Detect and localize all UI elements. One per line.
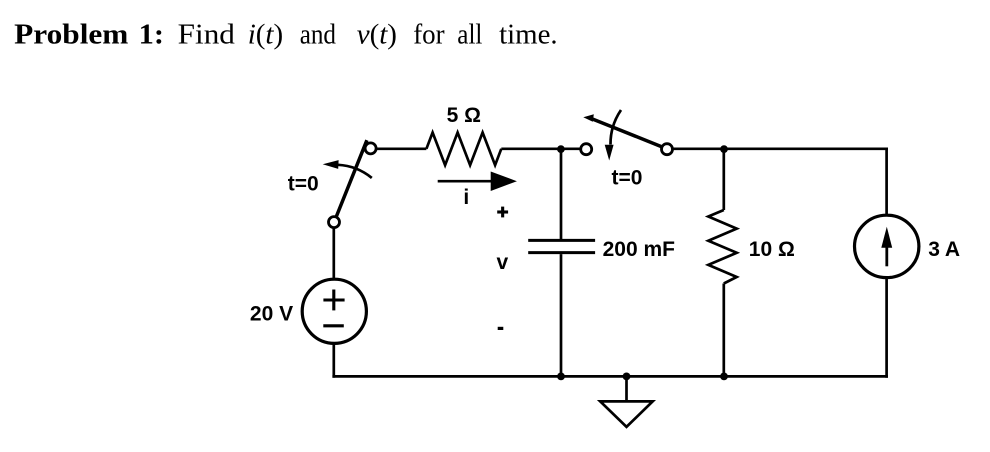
switch S2 closing motion arc arrow	[605, 110, 621, 161]
svg-text:t=0: t=0	[288, 172, 319, 195]
wire: top-right corner down to current source I1	[885, 148, 888, 216]
polarity label - (capacitor voltage)	[498, 327, 504, 330]
node D (ground node, junction dot)	[623, 373, 631, 381]
svg-text:200 mF: 200 mF	[603, 238, 676, 261]
value label 3 A	[928, 238, 960, 261]
value label 20 V	[250, 303, 293, 326]
svg-text:5 Ω: 5 Ω	[447, 104, 481, 127]
wire: node A down to capacitor C1 top plate	[560, 149, 563, 239]
wire: capacitor C1 bottom plate down to node C	[560, 254, 563, 376]
switch S1 lower terminal circle	[329, 217, 340, 228]
svg-text:v: v	[497, 251, 509, 274]
switch S2 left terminal circle	[581, 144, 592, 155]
value label 10 ohm	[749, 238, 795, 261]
node E (bottom 10-ohm node, junction dot)	[720, 373, 728, 381]
label i	[463, 186, 469, 209]
current arrow i	[438, 172, 517, 192]
voltage source V1 20 V (circle with plus minus)	[302, 279, 366, 343]
svg-text:20 V: 20 V	[250, 303, 293, 326]
switch S2 blade (open, with arrow tip)	[583, 114, 662, 147]
resistor R1 5 ohm (horizontal zigzag)	[426, 133, 501, 166]
switch S1 upper terminal circle	[365, 143, 376, 154]
current source I1 3 A (circle with up arrow)	[855, 215, 919, 277]
wire: switch S1 lower terminal down to voltage source V1	[332, 227, 335, 279]
label v (capacitor voltage)	[497, 251, 509, 274]
label t=0 for switch S1	[288, 172, 319, 195]
node C (bottom capacitor node, junction dot)	[557, 373, 565, 381]
ground symbol	[600, 376, 653, 427]
capacitor C1 200 mF (two plates)	[528, 240, 595, 252]
svg-text:t=0: t=0	[612, 167, 643, 190]
wire: resistor R1 to node A and switch S2 left terminal	[501, 147, 581, 150]
title: Problem 1: Find i(t) and v(t) for all time.	[14, 19, 557, 51]
svg-text:10 Ω: 10 Ω	[749, 238, 795, 261]
wire: resistor R2 down to node E	[722, 284, 725, 377]
label t=0 for switch S2	[612, 167, 643, 190]
bottom rail wire	[332, 375, 888, 378]
wire: switch S1 upper terminal to resistor R1	[376, 147, 427, 150]
resistor R2 10 ohm (vertical zigzag)	[708, 210, 736, 284]
value label 200 mF	[603, 238, 676, 261]
switch S2 right terminal circle	[662, 144, 673, 155]
svg-text:i: i	[463, 186, 469, 209]
wire: switch S2 right terminal to top-right corner	[672, 147, 888, 150]
node B (top 10-ohm node, junction dot)	[720, 145, 728, 153]
wire: voltage source V1 down to bottom-left corner	[332, 343, 335, 377]
svg-text:Problem1:Findi(t)andv(t)forall: Problem1:Findi(t)andv(t)foralltime.	[14, 19, 557, 51]
switch S1 blade (closed)	[336, 140, 367, 217]
svg-text:3 A: 3 A	[928, 238, 960, 261]
wire: current source I1 down to bottom rail	[885, 277, 888, 377]
switch S1 opening motion arc arrow	[323, 160, 372, 178]
wire: node B down to resistor R2	[722, 149, 725, 210]
value label 5 ohm	[447, 104, 481, 127]
polarity label + (capacitor voltage)	[497, 207, 508, 218]
node A (top capacitor node, junction dot)	[557, 145, 565, 153]
